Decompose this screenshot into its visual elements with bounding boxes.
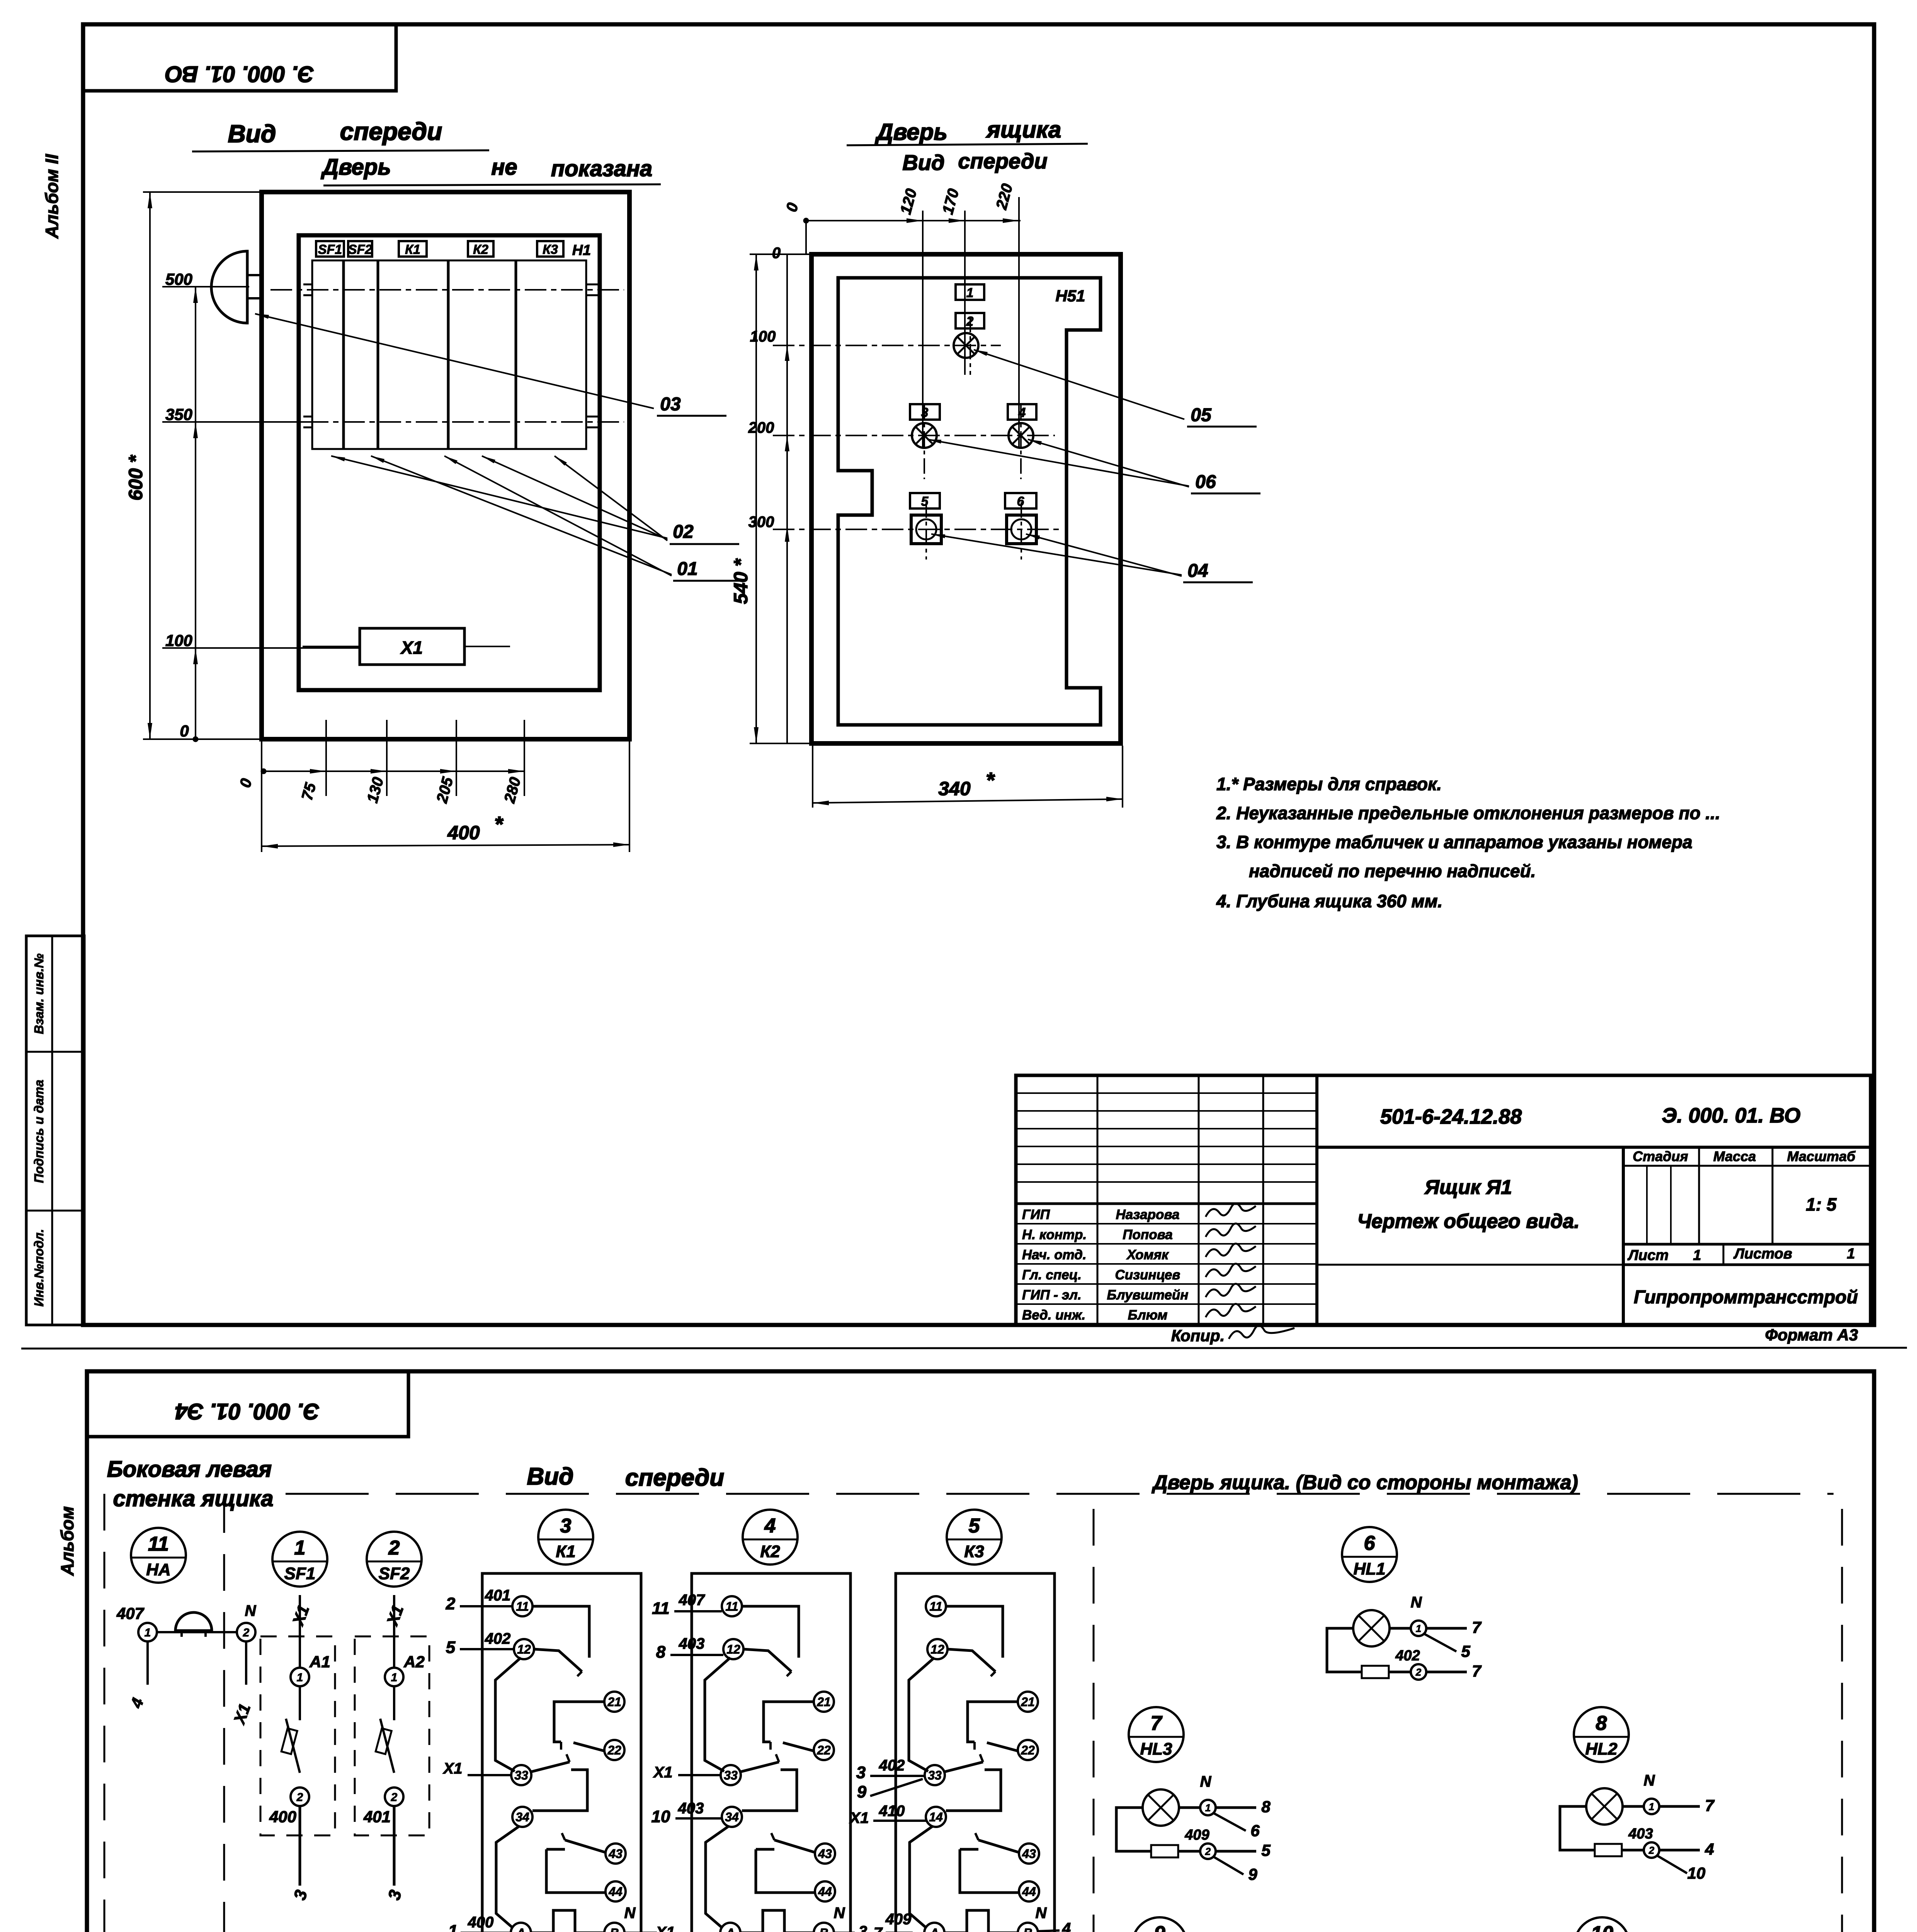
rail brackets xyxy=(303,284,312,286)
svg-text:HL3: HL3 xyxy=(1140,1740,1172,1759)
svg-text:2: 2 xyxy=(388,1537,400,1559)
svg-text:5: 5 xyxy=(969,1515,980,1537)
sheet 1 top-left stamp box xyxy=(83,24,396,91)
door dimension ladder xyxy=(786,254,788,743)
dimension bottom 75 130 205 280 xyxy=(264,770,524,772)
lamp HL1 terminal 1 xyxy=(1411,1621,1426,1636)
door opening xyxy=(299,235,600,690)
door centerlines xyxy=(773,345,1001,346)
door lamp 4 xyxy=(1009,423,1033,448)
svg-text:1: 1 xyxy=(448,1922,458,1932)
svg-text:А: А xyxy=(516,1926,525,1932)
svg-text:N: N xyxy=(245,1602,257,1619)
svg-text:Листов: Листов xyxy=(1733,1246,1792,1262)
svg-text:7: 7 xyxy=(1472,1618,1482,1636)
svg-text:SF2: SF2 xyxy=(348,242,372,257)
terminal 2 of HA xyxy=(237,1623,255,1641)
svg-text:1: 1 xyxy=(1416,1622,1421,1634)
svg-text:410: 410 xyxy=(879,1803,905,1820)
door top dimension chain xyxy=(806,220,1021,221)
svg-text:43: 43 xyxy=(1022,1847,1036,1861)
door plate 1 xyxy=(956,284,984,300)
svg-text:Копир.: Копир. xyxy=(1171,1327,1225,1345)
svg-text:44: 44 xyxy=(608,1885,623,1899)
svg-text:В: В xyxy=(1023,1926,1032,1932)
svg-text:1: 1 xyxy=(1693,1247,1701,1264)
position circle 8/HL2 xyxy=(1574,1707,1629,1762)
door plate 3 xyxy=(910,404,940,420)
svg-text:540 *: 540 * xyxy=(730,558,752,604)
svg-text:SF1: SF1 xyxy=(318,242,342,257)
terminal 1 of HA xyxy=(138,1623,157,1641)
position circle 7/HL3 xyxy=(1129,1707,1184,1762)
svg-text:Дверь ящика. (Вид со сторо: Дверь ящика. (Вид со стороны монтажа) xyxy=(1152,1471,1578,1494)
door outline xyxy=(811,254,1121,743)
svg-text:5: 5 xyxy=(1461,1642,1470,1660)
mounting rail centerline upper xyxy=(270,289,624,291)
position circle 11/HA xyxy=(131,1528,186,1583)
sheet 1 left margin column box xyxy=(26,936,84,1325)
dimension 400* xyxy=(261,741,262,852)
svg-text:11: 11 xyxy=(148,1533,169,1555)
leader 01 xyxy=(371,456,672,575)
svg-text:А2: А2 xyxy=(403,1653,425,1671)
svg-text:ящика: ящика xyxy=(986,117,1061,143)
svg-text:спереди: спереди xyxy=(958,149,1047,173)
lamp HL3 resistor xyxy=(1116,1808,1151,1851)
svg-text:7: 7 xyxy=(1705,1796,1715,1815)
svg-text:22: 22 xyxy=(1021,1743,1035,1757)
svg-text:Чертеж общего вида.: Чертеж общего вида. xyxy=(1357,1210,1580,1233)
relay К3 internal wires xyxy=(946,1606,1003,1658)
svg-text:407: 407 xyxy=(116,1604,145,1622)
svg-text:1: 5: 1: 5 xyxy=(1806,1194,1837,1214)
svg-text:402: 402 xyxy=(879,1757,905,1774)
svg-text:1: 1 xyxy=(966,286,974,300)
svg-text:0: 0 xyxy=(772,245,781,262)
svg-text:12: 12 xyxy=(726,1643,740,1656)
svg-text:4: 4 xyxy=(1062,1920,1071,1932)
svg-text:Э. 000. 01. Э4: Э. 000. 01. Э4 xyxy=(175,1399,320,1424)
svg-text:2. Неуказанные предельные от: 2. Неуказанные предельные отклонения раз… xyxy=(1216,803,1720,823)
svg-text:*: * xyxy=(494,812,503,836)
svg-text:350: 350 xyxy=(165,405,192,423)
svg-text:N: N xyxy=(1036,1905,1047,1922)
svg-text:X1: X1 xyxy=(443,1760,463,1777)
apparatus panel xyxy=(312,260,586,449)
svg-text:ГИП: ГИП xyxy=(1022,1207,1050,1222)
svg-text:22: 22 xyxy=(607,1743,621,1757)
svg-text:400: 400 xyxy=(447,822,480,844)
position circle 10/SB1 xyxy=(1575,1917,1630,1932)
svg-text:Масса: Масса xyxy=(1713,1148,1756,1164)
svg-text:11: 11 xyxy=(516,1600,529,1614)
svg-text:402: 402 xyxy=(485,1630,511,1647)
svg-text:43: 43 xyxy=(818,1847,832,1861)
svg-text:8: 8 xyxy=(1261,1798,1271,1816)
svg-text:HL2: HL2 xyxy=(1585,1740,1618,1759)
svg-text:9: 9 xyxy=(857,1782,867,1801)
svg-text:1: 1 xyxy=(145,1626,151,1639)
lamp HL3 terminal 1 xyxy=(1200,1800,1216,1815)
svg-text:1: 1 xyxy=(294,1537,306,1559)
svg-text:2: 2 xyxy=(243,1626,250,1639)
svg-text:11: 11 xyxy=(929,1600,942,1614)
svg-text:2: 2 xyxy=(446,1594,456,1613)
svg-text:*: * xyxy=(986,768,995,792)
svg-text:К1: К1 xyxy=(556,1542,576,1561)
svg-text:5: 5 xyxy=(921,494,929,509)
door button 6 xyxy=(1007,515,1036,544)
svg-text:НА: НА xyxy=(146,1560,171,1579)
svg-text:8: 8 xyxy=(1596,1712,1607,1735)
breaker blade xyxy=(286,1719,300,1773)
svg-text:Назарова: Назарова xyxy=(1116,1207,1180,1222)
leader 02 xyxy=(331,456,667,538)
svg-text:Дверь: Дверь xyxy=(874,119,947,145)
svg-text:03: 03 xyxy=(660,394,681,415)
svg-text:спереди: спереди xyxy=(625,1464,724,1491)
svg-text:600 *: 600 * xyxy=(125,454,146,500)
svg-text:Блюм: Блюм xyxy=(1128,1308,1168,1323)
svg-text:5: 5 xyxy=(446,1638,456,1657)
svg-text:3: 3 xyxy=(560,1515,572,1537)
label plate K2 xyxy=(468,241,493,257)
svg-text:Альбом II: Альбом II xyxy=(42,154,62,239)
svg-text:340: 340 xyxy=(938,778,971,799)
svg-text:4: 4 xyxy=(764,1515,776,1537)
svg-text:не: не xyxy=(491,155,517,180)
svg-text:SF2: SF2 xyxy=(379,1564,410,1583)
lamp HL3 xyxy=(1143,1789,1179,1826)
position circle 2/SF2 xyxy=(367,1532,422,1587)
svg-text:12: 12 xyxy=(930,1643,944,1656)
svg-text:Альбом: Альбом xyxy=(57,1506,77,1576)
terminal box X1 front view xyxy=(360,628,464,665)
sheet 2 stamp box xyxy=(87,1371,408,1437)
svg-text:Гл. спец.: Гл. спец. xyxy=(1022,1267,1082,1282)
svg-text:Вид: Вид xyxy=(228,120,276,148)
svg-text:43: 43 xyxy=(608,1847,623,1861)
hinge xyxy=(211,251,247,323)
svg-text:Э. 000. 01. ВО: Э. 000. 01. ВО xyxy=(1662,1104,1801,1127)
svg-text:Формат А3: Формат А3 xyxy=(1765,1326,1858,1344)
leader 05 xyxy=(974,350,1184,419)
svg-text:стенка ящика: стенка ящика xyxy=(113,1486,273,1511)
svg-text:21: 21 xyxy=(816,1695,831,1709)
svg-text:8: 8 xyxy=(656,1643,666,1662)
breaker blade xyxy=(380,1719,394,1773)
svg-text:403: 403 xyxy=(679,1635,705,1652)
svg-text:0: 0 xyxy=(180,722,189,740)
relay К2 outline xyxy=(692,1573,850,1932)
svg-text:Боковая левая: Боковая левая xyxy=(107,1457,272,1482)
door button 5 xyxy=(911,515,941,544)
svg-text:HL1: HL1 xyxy=(1353,1560,1385,1578)
svg-text:4. Глубина ящика 360 мм.: 4. Глубина ящика 360 мм. xyxy=(1216,891,1442,911)
svg-text:403: 403 xyxy=(1628,1826,1653,1842)
position circle 9/SB2 xyxy=(1132,1917,1187,1932)
svg-text:06: 06 xyxy=(1195,472,1216,492)
position circle 4/К2 xyxy=(743,1510,798,1565)
svg-text:7: 7 xyxy=(1472,1662,1482,1680)
svg-text:2: 2 xyxy=(1648,1844,1655,1856)
svg-text:А1: А1 xyxy=(309,1653,330,1671)
svg-text:10: 10 xyxy=(1591,1922,1613,1932)
svg-text:300: 300 xyxy=(748,514,774,531)
svg-text:10: 10 xyxy=(651,1807,670,1826)
svg-text:21: 21 xyxy=(1021,1695,1035,1709)
label plate SF2 xyxy=(348,241,372,257)
svg-text:Н1: Н1 xyxy=(572,242,591,259)
door plate 5 xyxy=(910,493,940,509)
svg-text:В: В xyxy=(819,1926,828,1932)
svg-text:N: N xyxy=(1644,1772,1655,1789)
svg-text:Сизинцев: Сизинцев xyxy=(1115,1267,1180,1282)
svg-text:Стадия: Стадия xyxy=(1633,1148,1688,1164)
svg-text:44: 44 xyxy=(818,1885,832,1899)
svg-text:22: 22 xyxy=(816,1743,831,1757)
lamp HL2 terminal 1 xyxy=(1644,1799,1659,1814)
svg-text:100: 100 xyxy=(750,328,776,345)
svg-text:N: N xyxy=(1411,1594,1422,1611)
svg-text:409: 409 xyxy=(885,1911,912,1928)
leader 03 xyxy=(255,314,654,408)
svg-text:Вид: Вид xyxy=(902,150,944,175)
label plate SF1 xyxy=(316,241,344,257)
svg-text:Взам. инв.№: Взам. инв.№ xyxy=(32,953,46,1034)
svg-text:Хомяк: Хомяк xyxy=(1126,1247,1169,1262)
door lamp 1 xyxy=(954,333,978,358)
svg-text:401: 401 xyxy=(363,1808,391,1826)
svg-text:N: N xyxy=(1200,1773,1212,1790)
relay К1 terminals xyxy=(512,1596,532,1616)
svg-text:SF1: SF1 xyxy=(284,1564,316,1583)
lamp HL2 terminal 2 xyxy=(1644,1842,1659,1858)
svg-text:К1: К1 xyxy=(405,242,420,257)
svg-text:N: N xyxy=(834,1905,845,1922)
svg-text:3: 3 xyxy=(859,1923,867,1932)
door lamp 3 xyxy=(912,423,937,448)
svg-text:спереди: спереди xyxy=(340,117,442,145)
svg-text:X1: X1 xyxy=(400,638,423,658)
svg-text:К3: К3 xyxy=(543,242,558,257)
svg-text:Вид: Вид xyxy=(527,1463,574,1490)
lamp HL2 resistor xyxy=(1560,1806,1595,1850)
svg-text:1: 1 xyxy=(1847,1246,1855,1262)
lamp HL1 resistor xyxy=(1327,1628,1362,1672)
svg-text:Инв.№подл.: Инв.№подл. xyxy=(32,1229,46,1307)
svg-text:01: 01 xyxy=(677,559,697,579)
svg-text:33: 33 xyxy=(724,1769,738,1782)
label plate K1 xyxy=(399,241,427,257)
svg-text:А: А xyxy=(929,1926,939,1932)
svg-text:N: N xyxy=(624,1905,636,1922)
svg-text:А: А xyxy=(725,1926,735,1932)
svg-text:407: 407 xyxy=(679,1592,705,1609)
svg-text:Ящик Я1: Ящик Я1 xyxy=(1424,1176,1512,1199)
svg-text:14: 14 xyxy=(929,1810,943,1824)
door inner contour xyxy=(838,278,1101,725)
panel dividers xyxy=(342,260,345,449)
svg-text:Нач. отд.: Нач. отд. xyxy=(1022,1247,1087,1262)
door plate 2 xyxy=(956,313,984,328)
svg-text:5: 5 xyxy=(1261,1841,1271,1859)
svg-text:11: 11 xyxy=(652,1599,670,1618)
svg-text:34: 34 xyxy=(515,1810,529,1824)
svg-text:X1: X1 xyxy=(655,1924,675,1932)
svg-text:4: 4 xyxy=(1704,1840,1714,1858)
svg-text:409: 409 xyxy=(1184,1827,1209,1843)
svg-text:Блувштейн: Блувштейн xyxy=(1107,1287,1189,1303)
lamp HL3 terminal 2 xyxy=(1200,1844,1216,1859)
position circle 6/HL1 xyxy=(1342,1527,1397,1582)
sheet 2 frame xyxy=(87,1371,1874,1932)
svg-text:Н. контр.: Н. контр. xyxy=(1022,1227,1087,1242)
svg-text:3. В контуре табличек и ап: 3. В контуре табличек и аппаратов указан… xyxy=(1216,832,1692,852)
svg-text:Гипропромтрансстрой: Гипропромтрансстрой xyxy=(1634,1287,1858,1308)
svg-text:1: 1 xyxy=(391,1671,398,1684)
leader 04 xyxy=(931,534,1182,575)
lamp HL1 xyxy=(1353,1610,1390,1646)
svg-text:Дверь: Дверь xyxy=(320,155,391,180)
position circle 5/К3 xyxy=(947,1510,1002,1565)
svg-text:2: 2 xyxy=(1415,1666,1422,1678)
svg-text:1: 1 xyxy=(1205,1802,1211,1813)
svg-text:К3: К3 xyxy=(964,1542,984,1561)
svg-text:400: 400 xyxy=(269,1808,296,1826)
relay К3 outline xyxy=(896,1573,1055,1932)
cabinet case outline xyxy=(262,192,629,739)
svg-text:44: 44 xyxy=(1022,1885,1036,1899)
svg-text:05: 05 xyxy=(1191,405,1212,425)
svg-text:6: 6 xyxy=(1250,1821,1260,1840)
svg-text:Лист: Лист xyxy=(1627,1247,1669,1264)
svg-text:1: 1 xyxy=(1649,1801,1654,1812)
svg-text:501-6-24.12.88: 501-6-24.12.88 xyxy=(1380,1105,1522,1128)
sheet separator line xyxy=(21,1348,1907,1349)
svg-text:К2: К2 xyxy=(760,1542,780,1561)
svg-text:12: 12 xyxy=(517,1643,531,1656)
svg-text:показана: показана xyxy=(551,156,652,181)
dimension 600* xyxy=(149,192,151,739)
position circle 3/К1 xyxy=(538,1510,593,1565)
svg-text:500: 500 xyxy=(165,270,192,288)
door plate 6 xyxy=(1005,493,1036,509)
relay К1 internal wires xyxy=(532,1606,589,1658)
svg-text:Э. 000. 01. ВО: Э. 000. 01. ВО xyxy=(165,61,314,87)
door dimension 340* xyxy=(812,746,813,808)
svg-text:Вед. инж.: Вед. инж. xyxy=(1022,1308,1085,1323)
svg-text:Н51: Н51 xyxy=(1055,287,1085,305)
svg-text:Подпись и дата: Подпись и дата xyxy=(32,1080,46,1183)
mounting rail centerline lower xyxy=(270,421,624,423)
svg-text:33: 33 xyxy=(928,1769,942,1782)
svg-text:К2: К2 xyxy=(473,242,488,257)
relay К3 terminals xyxy=(926,1596,946,1616)
bell HA xyxy=(175,1612,212,1631)
svg-text:11: 11 xyxy=(725,1600,738,1614)
svg-text:2: 2 xyxy=(1205,1845,1211,1857)
relay К2 internal wires xyxy=(742,1606,799,1658)
leader 06 xyxy=(927,439,1189,486)
svg-text:9: 9 xyxy=(1154,1922,1165,1932)
relay К3 coil xyxy=(967,1910,988,1932)
lamp HL1 terminal 2 xyxy=(1411,1664,1426,1680)
svg-text:X1: X1 xyxy=(653,1764,673,1781)
svg-text:В: В xyxy=(610,1926,619,1932)
title block frame xyxy=(1016,1075,1871,1325)
wire below breaker xyxy=(393,1806,396,1886)
svg-text:10: 10 xyxy=(1687,1864,1706,1882)
relay К1 outline xyxy=(482,1573,641,1932)
svg-text:21: 21 xyxy=(607,1695,621,1709)
svg-text:100: 100 xyxy=(165,631,192,650)
lamp HL2 xyxy=(1586,1788,1623,1825)
door dimension 540* xyxy=(755,254,757,743)
svg-text:1: 1 xyxy=(297,1671,303,1684)
svg-text:7: 7 xyxy=(874,1925,883,1932)
svg-text:02: 02 xyxy=(673,522,694,542)
svg-text:9: 9 xyxy=(1248,1865,1257,1883)
sheet 1 frame xyxy=(83,24,1874,1325)
svg-text:402: 402 xyxy=(1395,1648,1420,1664)
position circle 1/SF1 xyxy=(272,1532,327,1587)
svg-text:403: 403 xyxy=(678,1800,704,1817)
svg-text:7: 7 xyxy=(1151,1712,1163,1735)
svg-text:ГИП - эл.: ГИП - эл. xyxy=(1022,1287,1082,1303)
svg-text:6: 6 xyxy=(1364,1532,1376,1554)
svg-text:400: 400 xyxy=(468,1914,494,1931)
label plate K3 xyxy=(537,241,563,257)
relay К1 coil xyxy=(553,1910,575,1932)
section boundary dashes xyxy=(286,1493,1834,1495)
relay К2 coil xyxy=(763,1910,784,1932)
svg-text:X1: X1 xyxy=(849,1810,869,1827)
door plate 4 xyxy=(1008,404,1036,420)
relay К2 terminals xyxy=(722,1596,742,1616)
svg-text:1.* Размеры для справок.: 1.* Размеры для справок. xyxy=(1216,774,1442,794)
svg-text:надписей по перечню надписе: надписей по перечню надписей. xyxy=(1249,861,1536,881)
svg-text:04: 04 xyxy=(1187,561,1208,581)
svg-text:200: 200 xyxy=(748,419,774,436)
svg-text:2: 2 xyxy=(391,1791,398,1804)
svg-text:Масштаб: Масштаб xyxy=(1787,1148,1856,1164)
svg-text:2: 2 xyxy=(296,1791,303,1804)
svg-text:33: 33 xyxy=(514,1769,528,1782)
svg-text:34: 34 xyxy=(725,1810,739,1824)
wire below breaker xyxy=(299,1806,301,1886)
svg-text:Попова: Попова xyxy=(1123,1227,1172,1242)
svg-text:401: 401 xyxy=(485,1587,511,1604)
svg-text:3: 3 xyxy=(856,1763,866,1782)
dimension ladder left xyxy=(195,287,196,739)
wire HA xyxy=(157,1631,237,1633)
